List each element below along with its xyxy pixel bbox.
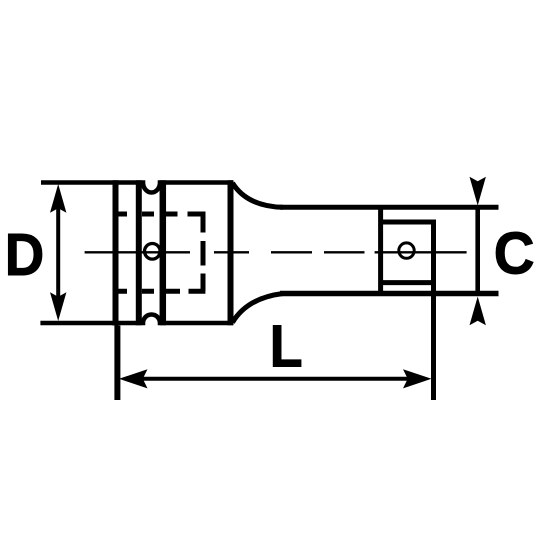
svg-text:D: D [5,223,44,288]
square drive right edge + L right extension line [431,220,436,401]
pin hole circle in square drive [399,243,414,258]
square drive top edge [381,220,436,225]
L arrowhead left [119,369,148,388]
hidden square socket: right dashed vertical [201,212,206,292]
head vertical line 2 [136,180,142,325]
C arrowhead bottom (outside, pointing up) [470,297,486,326]
top outline line with groove notch (also D top extension line) [41,183,233,193]
D arrowhead top [50,184,66,213]
pin hole circle in head [145,244,161,260]
neck top curve [233,183,284,207]
head right face vertical [228,180,234,325]
L dimension line [130,377,420,381]
centerline (dash-dot axis) [85,251,467,253]
svg-text:L: L [270,313,303,379]
shaft bottom line + C bottom extension line [280,291,499,297]
hidden square socket: top dashed line [117,212,206,217]
shaft top line + C top extension line [280,205,499,210]
C dimension line [475,207,480,293]
square drive bottom edge [381,280,436,285]
step vertical at start of square drive [378,207,383,293]
left face vertical + L left extension line [116,180,118,400]
C arrowhead top (outside, pointing down) [470,177,486,206]
head vertical line 3 [160,180,167,325]
D dimension line [56,195,60,310]
hidden square socket: bottom dashed line [117,289,205,294]
svg-text:C: C [494,221,535,286]
L arrowhead right [403,369,432,388]
bottom outline line with groove bump (also D bottom extension line) [40,315,233,324]
neck bottom curve [233,294,284,323]
D arrowhead bottom [50,292,66,321]
